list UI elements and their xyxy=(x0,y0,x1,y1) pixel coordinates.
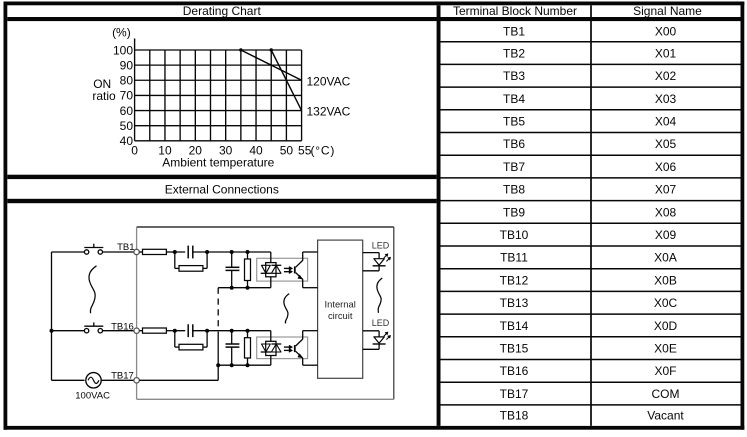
svg-text:X0B: X0B xyxy=(654,273,677,287)
svg-text:TB2: TB2 xyxy=(503,46,525,60)
svg-text:TB7: TB7 xyxy=(503,160,525,174)
svg-text:TB12: TB12 xyxy=(500,273,529,287)
svg-text:X0D: X0D xyxy=(654,319,678,333)
svg-text:TB3: TB3 xyxy=(503,69,525,83)
svg-text:Derating Chart: Derating Chart xyxy=(183,4,262,18)
svg-text:TB4: TB4 xyxy=(503,92,525,106)
svg-text:TB10: TB10 xyxy=(500,228,529,242)
svg-text:Ambient temperature: Ambient temperature xyxy=(162,155,274,169)
svg-text:TB6: TB6 xyxy=(503,137,525,151)
svg-text:100VAC: 100VAC xyxy=(75,391,110,402)
svg-text:X06: X06 xyxy=(655,160,677,174)
svg-text:ratio: ratio xyxy=(92,89,116,103)
svg-text:(°C): (°C) xyxy=(311,143,336,157)
svg-text:TB16: TB16 xyxy=(111,322,134,333)
svg-text:X05: X05 xyxy=(655,137,677,151)
svg-text:TB13: TB13 xyxy=(500,296,529,310)
svg-text:90: 90 xyxy=(120,58,134,72)
svg-text:X00: X00 xyxy=(655,25,677,39)
svg-text:50: 50 xyxy=(280,143,294,157)
svg-text:Terminal Block Number: Terminal Block Number xyxy=(453,4,577,18)
svg-text:X08: X08 xyxy=(655,205,677,219)
svg-text:70: 70 xyxy=(120,89,134,103)
svg-text:Vacant: Vacant xyxy=(647,409,684,423)
svg-text:X01: X01 xyxy=(655,46,677,60)
svg-text:X02: X02 xyxy=(655,69,677,83)
svg-text:X0C: X0C xyxy=(654,296,678,310)
svg-text:60: 60 xyxy=(120,104,134,118)
svg-text:TB17: TB17 xyxy=(500,387,529,401)
svg-text:LED: LED xyxy=(372,240,390,250)
svg-text:X03: X03 xyxy=(655,92,677,106)
svg-text:TB5: TB5 xyxy=(503,114,525,128)
svg-text:X0F: X0F xyxy=(654,364,676,378)
svg-text:LED: LED xyxy=(372,318,390,328)
svg-text:TB1: TB1 xyxy=(117,242,134,253)
svg-text:132VAC: 132VAC xyxy=(307,104,351,118)
svg-text:External Connections: External Connections xyxy=(165,182,279,196)
svg-text:TB15: TB15 xyxy=(500,341,529,355)
svg-text:X09: X09 xyxy=(655,228,677,242)
svg-text:50: 50 xyxy=(120,119,134,133)
svg-text:Signal Name: Signal Name xyxy=(633,4,702,18)
svg-text:120VAC: 120VAC xyxy=(307,75,351,89)
svg-text:100: 100 xyxy=(113,43,133,57)
svg-text:TB18: TB18 xyxy=(500,409,529,423)
svg-text:X0A: X0A xyxy=(654,251,677,265)
svg-text:X0E: X0E xyxy=(654,341,677,355)
svg-text:TB14: TB14 xyxy=(500,319,529,333)
svg-text:80: 80 xyxy=(120,74,134,88)
svg-text:TB1: TB1 xyxy=(503,25,525,39)
svg-text:COM: COM xyxy=(652,387,680,401)
svg-text:X04: X04 xyxy=(655,114,677,128)
svg-text:X07: X07 xyxy=(655,183,677,197)
svg-text:circuit: circuit xyxy=(328,310,353,321)
svg-text:(%): (%) xyxy=(112,26,131,40)
svg-text:TB9: TB9 xyxy=(503,205,525,219)
svg-text:0: 0 xyxy=(131,143,138,157)
svg-text:TB8: TB8 xyxy=(503,183,525,197)
svg-text:Internal: Internal xyxy=(325,298,356,309)
svg-text:TB16: TB16 xyxy=(500,364,529,378)
svg-text:TB11: TB11 xyxy=(500,251,528,265)
